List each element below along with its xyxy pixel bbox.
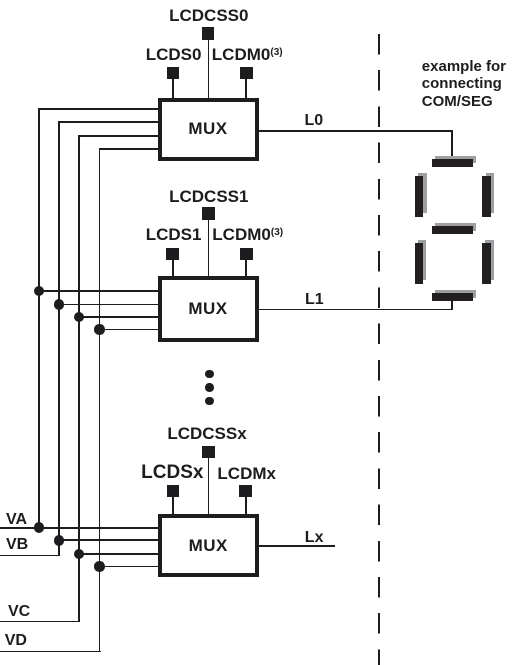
wire: L1 output of U2 [259, 309, 454, 311]
wire: VB line [0, 555, 60, 557]
wire: MUX3 input tap 3 [78, 553, 159, 555]
pin stub: LCDS0 into U1 [172, 79, 174, 98]
wire: L0 output of U1 [259, 130, 454, 132]
pin stub: LCDMx into U3 [245, 497, 247, 514]
wire: MUX1 input tap 3 [78, 135, 159, 137]
7-segment display: segment E shadow [418, 240, 426, 281]
pin stub: LCDM0 into U1 [245, 79, 247, 98]
7-segment display: segment C (lower right) [482, 243, 491, 284]
label: example for connecting COM/SEG [422, 58, 506, 111]
pin terminal square: LCDS0 [167, 67, 180, 80]
label LCDSx [141, 462, 203, 484]
label LCDCSSx [167, 424, 246, 444]
label LCDM0 with footnote 3 (U1) [212, 45, 283, 65]
7-segment display: segment C shadow [485, 240, 494, 281]
label LCDS0 [146, 45, 202, 65]
wire: VD line [0, 651, 101, 653]
junction dot: bus1/VA wire [34, 522, 45, 533]
label L1 [305, 291, 324, 309]
wire: MUX3 input tap 2 [58, 539, 159, 541]
pin terminal square: LCDM0 (U1) [240, 67, 253, 80]
ellipsis dot 2 [205, 383, 214, 392]
7-segment display: segment D (bottom) [432, 293, 473, 301]
junction dot: bus3/MUX2 tap [74, 312, 85, 323]
wire: MUX2 input tap 3 [78, 316, 159, 318]
7-segment display: segment F (upper left) [415, 176, 423, 217]
pin stub: LCDSx into U3 [172, 497, 174, 514]
wire: MUX1 input tap 4 [99, 148, 159, 150]
wire: vertical bus line 3 (VC net) [78, 135, 80, 622]
7-segment display: segment G shadow [435, 223, 476, 231]
7-segment display: segment G (middle) [432, 226, 473, 234]
ellipsis dot 3 [205, 397, 214, 406]
wire: L0 drop to segment A [451, 130, 453, 160]
wire: VA line into MUX3 (tap 1) [0, 527, 159, 529]
label LCDS1 [146, 225, 202, 245]
pin terminal square: LCDM0 (U2) [240, 248, 253, 261]
pin terminal square: LCDCSS1 [202, 207, 215, 220]
wire: L1 rise to segment D [451, 300, 453, 311]
wire: Lx output of U3 [259, 545, 335, 547]
7-segment display: segment A (top) [432, 159, 473, 166]
ellipsis dot 1 [205, 370, 214, 379]
pin stub: LCDS1 into U2 [172, 260, 174, 277]
pin stub: LCDCSS1 into U2 [208, 219, 210, 277]
pin terminal square: LCDCSSx [202, 446, 215, 459]
pin stub: LCDM0 into U2 [245, 260, 247, 277]
7-segment display: segment A shadow [435, 156, 476, 163]
wire: MUX2 input tap 2 [58, 304, 159, 306]
wire: VC line [0, 621, 80, 623]
wire: MUX1 input tap 1 [38, 108, 159, 110]
pin stub: LCDCSS0 into U1 [208, 40, 210, 98]
label L0 [305, 112, 324, 130]
pin terminal square: LCDCSS0 [202, 27, 215, 40]
label VA [6, 511, 27, 529]
7-segment display: segment F shadow [418, 173, 426, 214]
7-segment display: segment D shadow [435, 290, 476, 298]
label LCDCSS0 [169, 6, 248, 26]
wire: vertical bus line 2 (VB net) [58, 121, 60, 556]
junction dot: bus1/MUX2 tap [34, 286, 45, 297]
label Lx [305, 529, 324, 547]
label VD [5, 632, 27, 650]
7-segment display: segment B shadow [486, 173, 494, 214]
wire: MUX3 input tap 4 [99, 566, 159, 568]
junction dot: bus2/MUX3 tap [54, 535, 65, 546]
7-segment display: segment E (lower left) [415, 243, 423, 284]
junction dot: bus4/MUX3 tap [94, 561, 105, 572]
pin terminal square: LCDSx [167, 485, 180, 498]
junction dot: bus2/MUX2 tap [54, 299, 65, 310]
label VB [6, 536, 28, 554]
label LCDM0 with footnote 3 (U2) [212, 225, 283, 245]
wire: vertical bus line 1 (VA net) [38, 108, 40, 529]
wire: vertical bus line 4 (VD net) [99, 148, 101, 652]
wire: MUX2 input tap 4 [99, 329, 159, 331]
pin terminal square: LCDS1 [166, 248, 179, 261]
op block: MUX U1 [158, 98, 259, 162]
wire: MUX2 input tap 1 [38, 290, 159, 292]
junction dot: bus4/MUX2 tap [94, 324, 105, 335]
op block: MUX U3 [158, 514, 260, 577]
label VC [8, 603, 30, 621]
pin terminal square: LCDMx [239, 485, 252, 498]
pin stub: LCDCSSx into U3 [208, 458, 210, 514]
junction dot: bus3/MUX3 tap [74, 549, 85, 560]
op block: MUX U2 [158, 276, 259, 342]
label LCDCSS1 [169, 187, 248, 207]
7-segment display: segment B (upper right) [482, 176, 490, 217]
label LCDMx [217, 464, 276, 484]
wire: MUX1 input tap 2 [58, 121, 159, 123]
dashed separator line [378, 34, 380, 665]
